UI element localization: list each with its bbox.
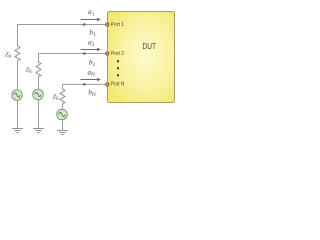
wire port N (source N to Port N) [63,83,106,85]
arrowhead b2 (reflected wave, on wire, pointing left) [82,52,86,55]
svg-text:Z0: Z0 [5,52,12,60]
port terminal N [106,83,109,86]
svg-text:a1: a1 [88,8,95,18]
wire branch 2 vertical [38,53,40,63]
wire branch N vertical [62,84,64,90]
port terminal 1 [106,23,109,26]
resistor Z0 branch N [60,89,65,104]
AC source VSN [57,109,68,120]
DUT box [108,12,175,103]
resistor Z0 branch 1 [15,46,20,61]
ground branch 2 [33,129,44,133]
ground branch N [57,131,68,135]
svg-text:Port 1: Port 1 [111,22,124,28]
wire port 1 (source 1 to Port 1) [18,24,106,26]
svg-text:aN: aN [88,68,96,78]
AC source VS2 [33,89,44,100]
wire branch 1 vertical [17,24,19,47]
wire branch N vertical lower [62,104,64,110]
arrowhead b1 (reflected wave, on wire, pointing left) [82,23,86,26]
svg-text:Z0: Z0 [52,94,59,102]
resistor Z0 branch 2 [36,62,41,77]
svg-text:bN: bN [88,88,96,98]
svg-text:DUT: DUT [143,41,157,51]
svg-text:Port N: Port N [111,81,124,87]
svg-text:a2: a2 [88,38,95,48]
svg-text:b2: b2 [89,58,96,68]
ground branch 1 [12,129,23,133]
wire branch 2 vertical lower [38,77,40,90]
arrow aN (incident wave) [81,78,102,82]
wire port 2 (source 2 to Port 2) [39,53,106,55]
AC source VS1 [12,90,23,101]
svg-text:b1: b1 [89,29,96,39]
arrow a1 (incident wave) [81,18,102,22]
svg-text:Port 2: Port 2 [111,51,124,57]
wire branch 1 to ground [17,100,19,128]
svg-text:Z0: Z0 [25,67,32,75]
wire branch 2 to ground [38,100,40,129]
wire branch 1 vertical lower [17,61,19,90]
ellipsis dots between ports [117,60,119,76]
arrowhead bN (reflected wave, on wire, pointing left) [82,83,86,86]
port terminal 2 [106,52,109,55]
arrow a2 (incident wave) [81,48,102,52]
wire branch N to ground [62,120,64,131]
